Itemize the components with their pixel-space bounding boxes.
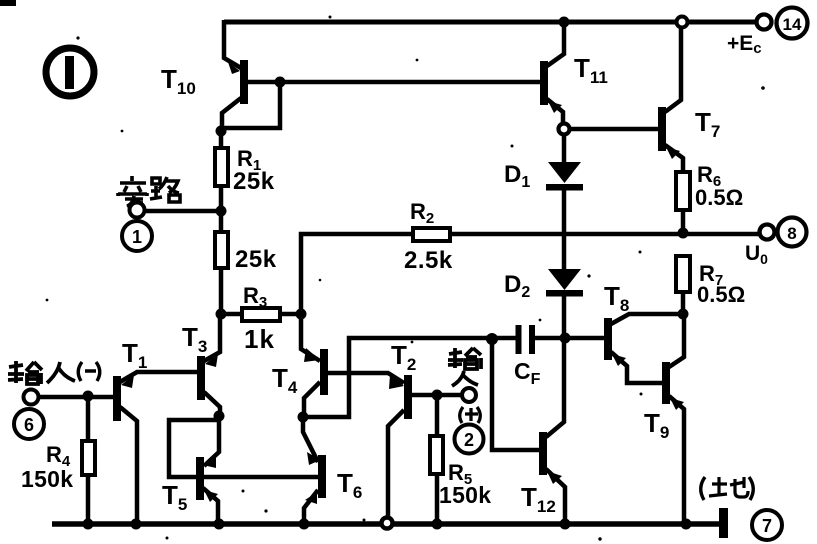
- label T10: [161, 64, 196, 98]
- wire: input(-) to T1 base: [39, 395, 113, 400]
- transistor T9: [662, 316, 684, 524]
- wire: bottom ground rail: [52, 521, 720, 527]
- node: R3 right junction: [296, 309, 307, 320]
- wire: node to T8 base: [565, 336, 604, 341]
- node: T2 base / R5 junction: [432, 390, 443, 401]
- wire: node to T7 base: [569, 127, 658, 132]
- label input(-): [8, 361, 75, 384]
- transistor T7: [658, 27, 683, 172]
- node: T10 collector junction: [216, 126, 227, 137]
- node: T1 collector on rail: [131, 519, 142, 530]
- wire: input(+) terminal stub: [437, 393, 462, 398]
- transistor T12: [539, 339, 565, 524]
- svg-text:6: 6: [24, 415, 34, 435]
- resistor 25k (lower divider): [215, 211, 228, 314]
- terminal open circle 1 (bypass): [130, 203, 145, 218]
- label R6 0.5ohm: [695, 162, 743, 210]
- label T7: [695, 107, 720, 141]
- wire: output line with R2: [301, 234, 763, 314]
- svg-text:25k: 25k: [233, 168, 275, 195]
- resistor R5: [430, 395, 443, 524]
- svg-text:8: 8: [787, 224, 796, 243]
- node: T9 emitter on rail: [681, 519, 692, 530]
- resistor R6: [676, 172, 690, 233]
- label D2: [504, 271, 530, 301]
- label R5 150k: [439, 460, 491, 508]
- node: T12 emitter on rail: [560, 519, 571, 530]
- label D1: [504, 161, 530, 191]
- node: T3/T5 junction: [214, 411, 225, 422]
- svg-text:2: 2: [464, 430, 474, 450]
- svg-text:14: 14: [783, 15, 802, 34]
- resistor R7: [676, 256, 690, 314]
- capacitor CF: [516, 325, 566, 354]
- wire: T5 diode tie box: [169, 420, 219, 477]
- wire: T4/T6 node to VAS line: [303, 338, 492, 417]
- ground terminal bar: [719, 508, 728, 538]
- svg-text:1: 1: [132, 227, 142, 247]
- node: output at R6/R7: [678, 228, 689, 239]
- node: T7 collector open junction on rail: [677, 17, 688, 28]
- label bypass (pang lu): [118, 176, 180, 206]
- transistor T10: [222, 60, 248, 131]
- wire: CF node to plate: [486, 336, 517, 341]
- terminal open circle 14: [757, 15, 772, 30]
- label U0: [745, 242, 768, 267]
- node: T11 emitter open junction: [559, 124, 570, 135]
- svg-text:1k: 1k: [244, 324, 275, 354]
- transistor T6: [303, 420, 326, 524]
- transistor T5: [196, 416, 219, 524]
- label T1: [122, 338, 147, 372]
- terminal circled 2: [455, 425, 484, 454]
- transistor T3: [197, 314, 220, 417]
- node: T6 emitter on rail: [299, 519, 310, 530]
- terminal open circle 6: [24, 390, 39, 405]
- svg-text:2.5k: 2.5k: [404, 247, 453, 274]
- diode D1: [546, 134, 583, 271]
- label T12: [521, 482, 556, 516]
- label input(+) vertical: [448, 348, 481, 386]
- transistor T11: [540, 24, 564, 126]
- node: T5 emitter on rail: [214, 519, 225, 530]
- node: T1 base / R4 junction: [83, 391, 94, 402]
- wire: top supply rail: [224, 20, 757, 25]
- label R4 150k: [21, 442, 73, 492]
- label T8: [604, 281, 629, 315]
- label T3: [182, 322, 207, 356]
- label R7 0.5ohm: [697, 261, 745, 307]
- terminal circled 8: [778, 218, 807, 247]
- transistor T8: [604, 314, 683, 383]
- node: T8/T9 collector junction: [678, 309, 689, 320]
- label T11: [574, 53, 608, 87]
- node: divider junction: [216, 206, 227, 217]
- svg-text:0.5Ω: 0.5Ω: [697, 282, 745, 307]
- wire: bypass terminal to divider node: [145, 209, 221, 214]
- svg-text:150k: 150k: [21, 466, 73, 492]
- svg-text:25k: 25k: [235, 246, 277, 273]
- terminal circled 7: [752, 510, 782, 540]
- wire: T10 base to T11 base: [280, 80, 540, 85]
- label R1 25k: [233, 146, 275, 195]
- label R3 1k: [243, 283, 275, 354]
- node: R5 on rail: [432, 519, 443, 530]
- terminal open circle 2: [462, 388, 476, 402]
- svg-text:150k: 150k: [439, 482, 491, 508]
- label T9: [644, 408, 669, 442]
- terminal open circle 8: [760, 225, 775, 240]
- node: R3 left junction: [216, 309, 227, 320]
- node: T4/T6 junction: [298, 412, 309, 423]
- resistor R3: [221, 308, 301, 321]
- node: T2 collector open junction on rail: [382, 518, 393, 529]
- node: T10 base junction: [275, 77, 286, 88]
- resistor R4: [82, 396, 95, 524]
- resistor R1: [215, 131, 228, 211]
- transistor T1: [113, 372, 197, 524]
- diode D2: [546, 269, 583, 338]
- label T4: [272, 363, 298, 397]
- scan artifact corner mark: [0, 0, 16, 6]
- label CF: [514, 358, 541, 388]
- figure number circle 1 (top-left): [46, 48, 94, 96]
- node: D2/T12/T8 junction: [560, 333, 571, 344]
- label T5: [162, 480, 187, 514]
- resistor R2: [413, 228, 450, 241]
- wire: T10 emitter drop from rail: [224, 20, 241, 68]
- transistor T4: [301, 314, 328, 417]
- terminal circled 14: [777, 8, 808, 39]
- wire: T5/T6 base tie: [203, 475, 318, 480]
- wire: T12 base from CF node: [492, 339, 539, 450]
- svg-text:7: 7: [762, 516, 772, 536]
- wire: T10 base-collector tie: [221, 82, 280, 128]
- wire: T4 base to T2 emitter: [327, 373, 404, 383]
- svg-text:0.5Ω: 0.5Ω: [695, 185, 743, 210]
- label T6: [337, 468, 362, 502]
- node: R4 on rail: [83, 519, 94, 530]
- node: VAS input / CF left: [486, 333, 498, 345]
- transistor T2: [388, 375, 437, 517]
- label 25k: [235, 246, 277, 273]
- label +Ec: [727, 32, 762, 57]
- label T2: [391, 340, 416, 374]
- terminal circled 6: [14, 409, 44, 439]
- terminal circled 1: [122, 221, 152, 251]
- node: T11 collector on rail: [559, 17, 570, 28]
- label R2 2.5k: [404, 199, 453, 274]
- label (ground): [701, 477, 754, 500]
